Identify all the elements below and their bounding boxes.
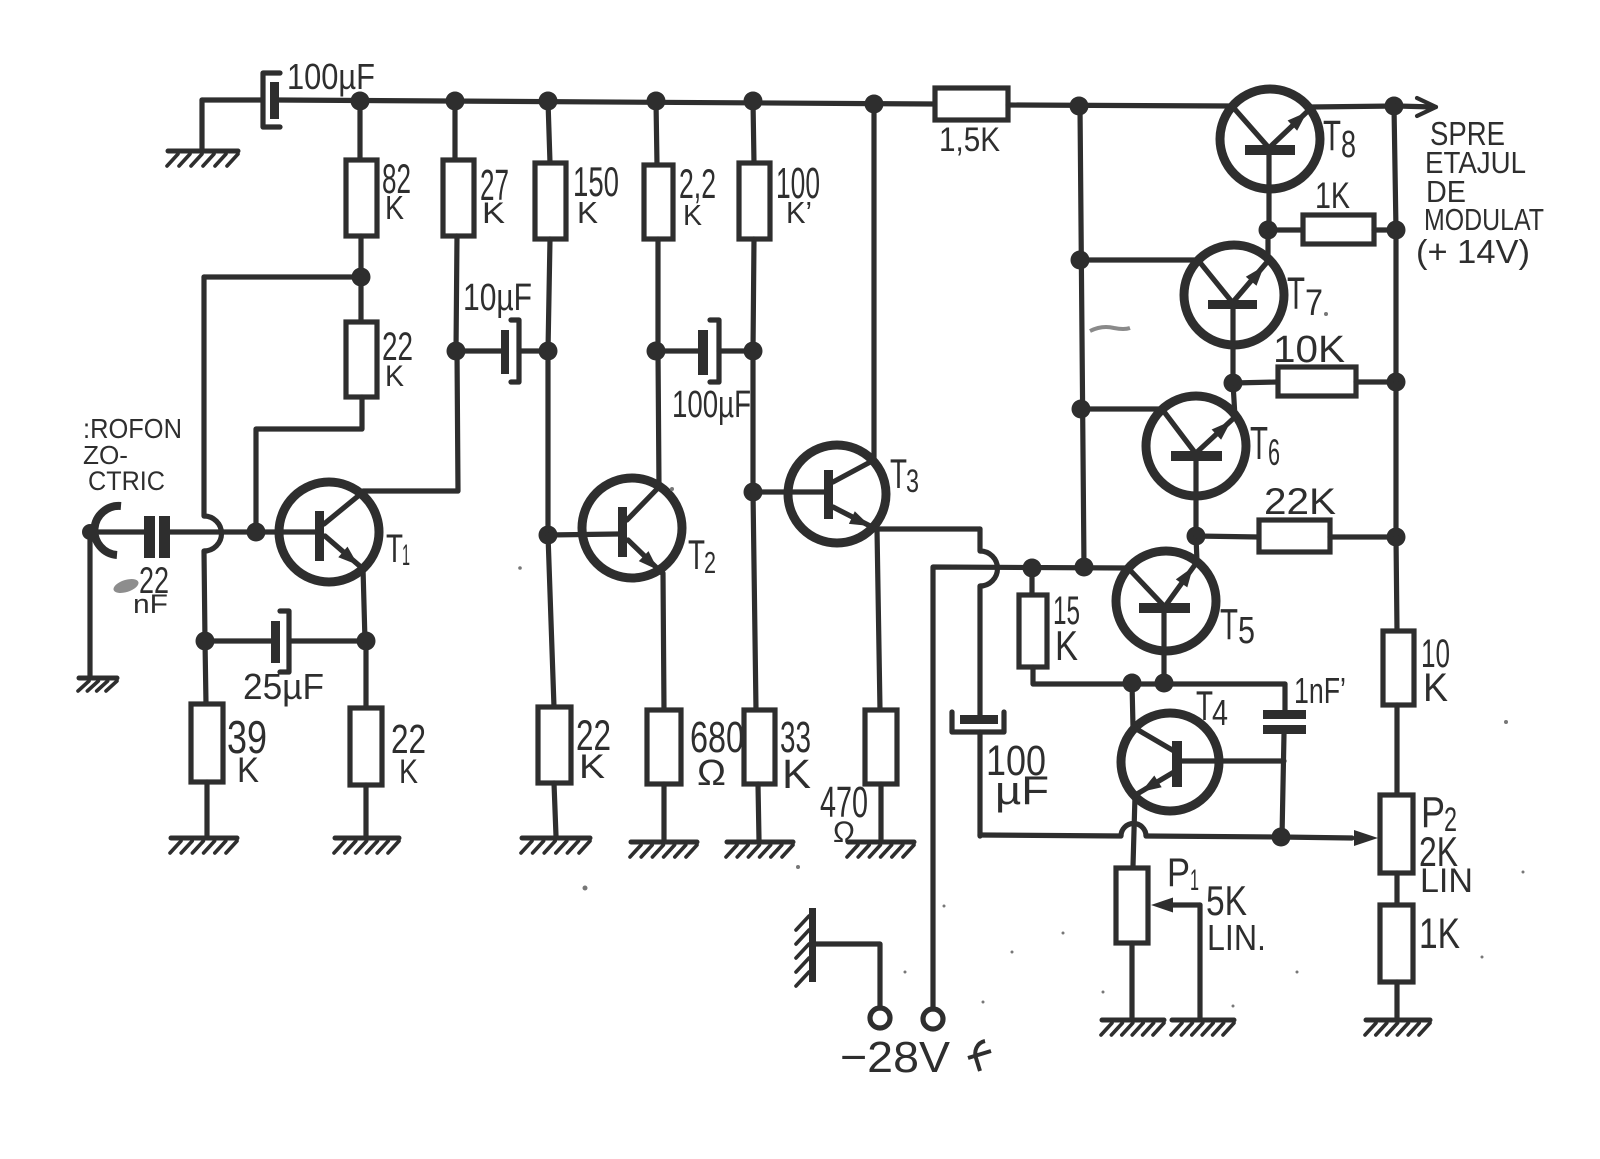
transistor T6 base diagonal [1162,409,1196,454]
resistor R 27K [443,160,474,236]
node: rail/2.2K [647,92,666,111]
ground (T2 base divider) [521,838,590,853]
label nF [133,589,168,619]
svg-text:2: 2 [704,545,716,580]
svg-text:1K: 1K [1419,910,1460,958]
wire: right vertical 22K-10Kres [1396,537,1397,631]
wire: 150K node to T2 base node [545,351,550,535]
wire: T3 collector to rail [871,104,876,460]
terminal circle -28V [923,1009,943,1029]
transistor T8 base bar [1245,145,1295,155]
label K (22K T1 emitter) [399,753,418,791]
svg-text:4: 4 [1212,692,1228,733]
transistor T4 emitter diagonal [1137,772,1174,794]
node: 10uF/150K [539,342,558,361]
wire: 100uF to bottom wire [977,732,982,836]
svg-text:T: T [688,531,705,578]
svg-text:T: T [1196,682,1213,729]
resistor R 22K (T2 base) [538,707,571,783]
svg-text:CTRIC: CTRIC [88,466,165,496]
svg-text:K: K [579,748,605,786]
wire: 10uF right lead [519,348,548,353]
svg-text:5: 5 [1238,610,1255,652]
resistor R 15K [1019,595,1047,667]
node: T7 base tap [1071,251,1090,270]
svg-text:µF: µF [995,769,1049,813]
transistor T6 circle [1146,396,1246,496]
wire: bottom wire to P2 wiper [1281,837,1352,838]
label T2 [688,531,716,580]
label K (22K base) [385,360,404,393]
wire: 22K(548) top lead [548,535,554,707]
wire: 25uF right lead [289,638,366,643]
node A (82K/22K junction) [352,268,371,287]
svg-text:7: 7 [1305,282,1323,323]
resistor R 680 [647,710,681,784]
wire: 33K top lead [753,492,756,710]
resistor R 33K [744,710,775,784]
wire: bottom wire left of hop [980,835,1121,836]
svg-text:K: K [385,189,404,226]
capacitor 10uF cup electrode [511,320,519,382]
label 1K (bottom) [1419,910,1460,958]
P1 wiper arrow [1151,898,1200,913]
transistor T8 collector diagonal [1270,108,1311,147]
wire: 1nF to bottom node [1282,734,1284,837]
resistor 1,5K (series in rail) [935,88,1008,120]
wire: mic ground drop [87,540,92,676]
svg-text:K: K [237,751,259,790]
ground (right chain) [1365,1020,1430,1035]
wire: T4 emitter drop [1133,796,1135,866]
wire: T6 collector up [1233,383,1235,417]
node: T7 collector/T8 emitter/1K [1259,221,1278,240]
wire: rail T8 collector to output node [1311,106,1396,107]
label 100uF (top) [287,56,375,97]
label P1 [1167,851,1199,897]
label 82 [382,155,411,202]
svg-text:1nF’: 1nF’ [1294,670,1346,711]
node: rail/right chain vertical [1070,97,1089,116]
label 100 [776,159,820,208]
wire: T3 emitter to 470 [877,529,880,710]
wire: 470 to ground [878,784,883,840]
supply squiggle mark [968,1041,991,1071]
wire: right vertical top [1394,106,1396,230]
ground (T1 emitter) [334,838,399,853]
label K (2,2K) [683,200,703,232]
wire: 39K to ground [204,782,209,836]
transistor T8 emitter line [1266,155,1271,230]
capacitor 1nF plate 1 [1263,710,1306,719]
transistor T3 circle [788,445,886,543]
microphone symbol (piezo element arc) [94,506,121,555]
wire hop: over T5 base wire [980,551,998,586]
label SPRE [1430,115,1505,152]
label ROFON (microfon, cut) [83,413,182,444]
wire: 82K top lead [357,101,362,160]
svg-text:1: 1 [402,539,410,572]
capacitor 22nF plate 1 [144,516,155,558]
capacitor 100uF series in supply rail [263,73,280,127]
wire: 33K to ground [758,784,759,840]
wire: mic to 22nF [90,529,144,534]
ground (33K) [726,842,793,857]
wire: node A to left vertical [204,274,361,279]
wire: wall ground to terminal [816,944,880,1008]
svg-text:10K: 10K [1273,329,1345,371]
node: base wire / bias divider [247,523,266,542]
wire: drop from T3 emitter [977,529,982,551]
wire: T2 collector up [658,351,659,487]
svg-text:1: 1 [1190,864,1199,897]
transistor T5 base diagonal [1128,568,1164,606]
node: T5 emitter [1155,674,1174,693]
capacitor 25uF cup electrode [280,611,289,672]
label CTRIC (electric, cut) [88,466,165,496]
label 1K (T8 emitter) [1315,175,1350,216]
wire: right vertical 1K-10K [1393,230,1398,382]
transistor T6 collector diagonal [1196,417,1235,453]
wire: T5 collector up [1196,536,1197,562]
label 22 (T1 emitter) [391,716,426,762]
ground (470) [847,842,914,857]
label 2,2 [679,160,716,207]
svg-text:10µF: 10µF [463,277,532,319]
wire: T1 emitter 22K top lead [363,641,368,708]
wire: 27K bottom lead [456,236,457,351]
capacitor 25uF plate [271,621,280,663]
label 25uF [243,666,324,707]
wire: drop to 100uF(bottom) [977,586,982,716]
transistor T8 circle [1220,89,1320,189]
wire: P1 wiper tail down [1197,905,1202,1018]
wire hop: bottom wire over T4 emitter [1121,823,1146,836]
node: bases vertical bottom [1075,558,1094,577]
wire: -28V feed corner [933,567,1128,1009]
wire: 22K base resistor to T1 base [256,397,362,532]
wire: 150K bottom lead [548,239,550,351]
node: T4 base drop [1123,674,1142,693]
svg-text:K: K [482,197,505,230]
pencil smudge [112,576,140,595]
node: rail/150K [539,92,558,111]
wire: left bias vertical upper [201,277,206,516]
transistor T4 collector line [1182,758,1284,763]
resistor R 150K [535,163,566,239]
wire: 22K(T6) left lead [1196,536,1259,537]
node: rail/27K [446,92,465,111]
node: rail/T3 collector [865,95,884,114]
svg-text:1,5K: 1,5K [939,121,1000,159]
svg-text:T: T [1287,268,1305,319]
capacitor 22nF plate 2 [159,516,170,558]
resistor R 470 [865,710,897,784]
wire: top supply rail (to 1.5K) [278,100,935,104]
label T1 [386,527,410,572]
label Omega (470) [833,816,855,849]
wire: 27K top lead [452,101,457,160]
wire: 25uF left lead [205,638,271,643]
label K (33K) [782,751,811,797]
label 100uF (mid) [672,384,751,426]
transistor T2 base bar [618,507,627,557]
wire: 82K bottom to node A [358,236,363,277]
ground (680) [630,842,697,857]
capacitor 10uF plate [501,330,509,374]
wire: T2 base wire [548,534,618,535]
wire: 1K(T8) right lead [1374,227,1396,232]
transistor T1 circle [279,482,379,582]
svg-text:T: T [890,450,907,497]
capacitor 100uF(mid) cup electrode [710,320,719,382]
wire: 22nF to T1 base [170,529,315,534]
label T7 [1287,268,1323,323]
svg-text:K: K [577,195,598,230]
svg-text:100µF: 100µF [672,384,751,426]
label K (27K) [482,197,505,230]
ground (mic) [78,678,117,691]
svg-text:T: T [1250,417,1268,469]
label 15 [1053,589,1080,633]
label K (39K) [237,751,259,790]
label T4 [1196,682,1228,733]
wire: left bias vertical lower [204,551,205,641]
transistor T7 base bar [1208,300,1257,309]
wire: T3 base wire [753,489,824,494]
node: right vertical/1K [1387,221,1406,240]
node: T6 base tap [1072,400,1091,419]
wire: right vertical 10K-22K [1393,382,1398,537]
label 680 [690,713,744,762]
svg-text:1K: 1K [1315,175,1350,216]
svg-text:K: K [782,751,811,797]
label 5K [1206,877,1247,924]
mic terminal node [82,524,98,540]
transistor T1 base bar [315,511,324,561]
wire: 1K(T8) left lead [1268,227,1303,232]
node: T3 base [744,483,763,502]
transistor T6 base bar [1171,451,1222,461]
label K (150K) [577,195,598,230]
resistor R 10K (right) [1383,631,1414,705]
P2 wiper arrow [1354,830,1378,846]
label DE [1426,174,1466,209]
svg-text:3: 3 [906,463,919,499]
wire: 10K to P2 [1394,705,1399,795]
node: T5 collector/T6 emitter/22K [1187,527,1206,546]
svg-text:K’: K’ [786,195,812,230]
node: T6 collector/T7 emitter/10K [1224,374,1243,393]
label 100 (bottom cap) [986,737,1046,785]
node: 15K top [1023,559,1042,578]
wire: 10K(T7) left lead [1233,382,1278,383]
capacitor 100uF(mid) plate [698,330,708,375]
resistor R 22K (T1 base) [346,322,377,397]
label K' (100K) [786,195,812,230]
resistor R 1K (bottom right) [1380,905,1413,982]
wire: T2 emitter drop [663,573,664,710]
wire: 150K top lead [548,101,550,163]
ground (P1) [1101,1020,1164,1035]
resistor R 82K [346,160,377,236]
wire: 22K(base) top lead [358,277,363,322]
label 22K (T6 emitter) [1264,481,1336,522]
wire: T1 collector to 27K column [363,351,458,491]
svg-text:K: K [1055,622,1078,669]
transistor T5 circle [1116,551,1216,651]
terminal circle (chassis) [870,1008,890,1028]
svg-text:6: 6 [1268,432,1280,473]
svg-text:K: K [385,360,404,393]
transistor T7 circle [1184,245,1284,345]
svg-text:P: P [1167,851,1190,895]
label K (22K T2 base) [579,748,605,786]
label 33 [780,713,811,762]
node: right vertical/10K [1387,373,1406,392]
ground (rail left end) [167,151,238,166]
svg-text:25µF: 25µF [243,666,324,707]
svg-text:−28V: −28V [840,1033,951,1082]
node: bias vert / 25uF [196,632,215,651]
label uF (bottom cap) [995,769,1049,813]
wall ground hatches [796,916,809,986]
transistor T4 base bar [1172,741,1182,787]
transistor T7 collector diagonal [1233,261,1268,302]
label LIN (P2) [1420,862,1473,900]
label 22 (nF) [139,560,169,601]
wire: 100K node down to T3 base node [750,351,755,492]
svg-text:Ω: Ω [697,752,726,793]
transistor T3 base bar [824,470,833,519]
svg-text:K: K [1423,666,1448,710]
svg-text:K: K [399,753,418,791]
wire: 2.2K top lead [656,101,657,165]
wire: rail 1.5K to T8 [1008,105,1232,106]
wire: ground drop at rail left end [199,100,204,149]
label 150 [573,158,619,205]
resistor R 2,2K [644,165,673,239]
label 10uF [463,277,532,319]
wire: 15K bottom to emitter row [1033,667,1285,684]
node: T2 base [539,526,558,545]
ground (39K) [170,838,237,853]
wire: 10uF left lead [456,348,501,353]
transistor T2 emitter diagonal [628,540,662,573]
capacitor 1nF plate 2 [1263,725,1306,734]
node: rail/output [1385,97,1404,116]
label 470 [820,778,868,827]
transistor T3 emitter diagonal [833,507,874,528]
label T8 [1323,112,1356,166]
wire: bottom wire to 1nF node [1146,836,1281,837]
label K (15K) [1055,622,1078,669]
label Omega (680) [697,752,726,793]
wire: 100uF(mid) left lead [656,348,698,353]
node: 27K/10uF/T1 collector [447,342,466,361]
wire: 39K top lead [205,641,206,704]
label T5 [1220,600,1255,652]
label ETAJUL [1425,145,1526,180]
wire: T7 base wire [1080,257,1198,262]
wire: 100uF(mid) right lead [719,348,753,353]
label 22 (T2 base) [576,712,611,760]
transistor T5 emitter line [1161,613,1166,683]
wire: T1 emitter drop [363,568,365,641]
label ZO- (piezo, cut) [83,440,128,470]
scan speckles [518,312,1524,1008]
label 2K [1419,828,1458,875]
label 27 [480,161,509,210]
transistor T4 circle [1121,713,1219,811]
node: 100uF/100K/T3 base [744,342,763,361]
label (+14V) [1416,233,1530,270]
wire: 680 to ground [661,784,666,840]
resistor R 22K (T6 emitter) [1259,520,1330,552]
label K (82K) [385,189,404,226]
wall ground bar [809,908,816,982]
transistor T7 base diagonal [1198,260,1232,302]
node: rail/100K [744,92,763,111]
transistor T2 collector diagonal [627,487,659,520]
wire: 2.2K bottom lead [655,239,660,351]
wire: T6 base wire [1081,406,1162,411]
wire: 1K to ground [1394,982,1399,1018]
transistor T5 base bar [1139,603,1190,613]
wire: 15K top lead [1029,568,1034,595]
node: emitter / 25uF [357,632,376,651]
label 10K (T7 emitter) [1273,329,1345,371]
wire: T7 collector up [1265,230,1270,261]
svg-text:22K: 22K [1264,481,1336,522]
wire: 22K emitter to ground [363,785,368,836]
resistor R 22K (T1 emitter) [350,708,382,785]
node: 2.2K/100uF/T2 collector [647,342,666,361]
wire: 10K(T7) right lead [1356,379,1396,384]
wire: top supply rail left segment [202,97,262,102]
resistor R 39K [191,704,223,782]
transistor T3 collector diagonal [833,460,874,482]
label -28V [840,1033,951,1082]
label P2 [1421,788,1457,839]
wire: right chain bases vertical [1080,106,1084,567]
node: right vertical/22K [1387,528,1406,547]
label K (10K right) [1423,666,1448,710]
transistor T1 emitter diagonal [325,536,362,568]
transistor T2 circle [582,478,682,578]
ground (P1 wiper) [1171,1020,1234,1035]
label T6 [1250,417,1280,473]
svg-text:(+ 14V): (+ 14V) [1416,233,1530,270]
svg-text:nF: nF [133,589,168,619]
capacitor 100uF(bottom) plate [960,715,998,724]
resistor R 10K (T7 emitter) [1278,367,1356,396]
svg-text:100µF: 100µF [287,56,375,97]
svg-text:T: T [1323,112,1341,160]
wire: P2 to 1K [1394,873,1399,905]
resistor R 1K (T8 emitter) [1303,215,1374,244]
transistor T6 emitter line [1193,461,1198,536]
wire: T3 emitter junction right [876,526,980,531]
wire: 100K bottom lead [753,239,754,351]
potentiometer P2 body [1380,795,1413,873]
node: rail/82K [351,92,370,111]
svg-text:T: T [1220,600,1238,649]
transistor T4 base diagonal [1133,727,1174,751]
svg-text:MODULAT: MODULAT [1424,202,1544,237]
wire: output arrow [1396,98,1436,116]
transistor T1 collector diagonal [324,492,363,524]
